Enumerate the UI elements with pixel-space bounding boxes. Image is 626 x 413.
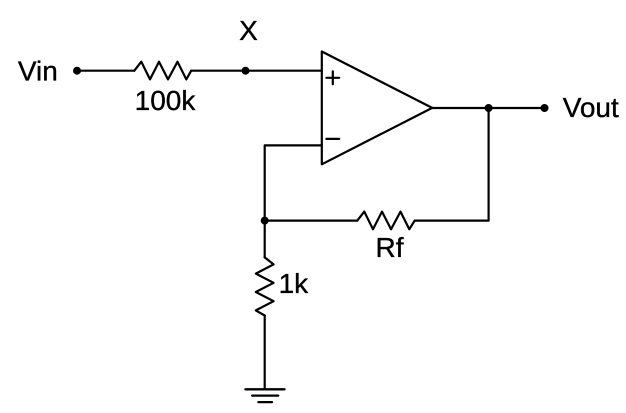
resistor Rf — [357, 212, 414, 230]
node feedback junction dot — [261, 217, 269, 225]
node X dot — [242, 67, 250, 75]
op-amp + pin marking — [326, 71, 339, 84]
node Vout terminal dot — [541, 104, 549, 112]
ground — [245, 389, 284, 402]
op-amp - pin marking — [326, 138, 339, 140]
wire Vin to R1 — [77, 70, 134, 72]
svg-text:Vout: Vout — [563, 92, 619, 123]
wire Rf to output branch — [415, 108, 489, 221]
wire minus input to node — [265, 145, 322, 220]
svg-text:X: X — [239, 15, 258, 46]
resistor R1 100k — [134, 62, 191, 80]
resistor R2 1k — [256, 257, 274, 315]
node Vin terminal dot — [73, 67, 81, 75]
svg-text:1k: 1k — [279, 268, 310, 299]
op-amp U1 — [322, 52, 432, 165]
wire op-amp output — [432, 107, 544, 109]
wire node to R2 — [264, 221, 266, 258]
wire node to Rf — [265, 220, 358, 222]
wire R2 to ground — [264, 316, 266, 390]
node output junction dot — [485, 104, 493, 112]
svg-text:100k: 100k — [135, 85, 197, 116]
svg-text:Vin: Vin — [18, 56, 58, 87]
wire R1 to op-amp + input — [191, 70, 322, 72]
svg-text:Rf: Rf — [376, 232, 404, 263]
